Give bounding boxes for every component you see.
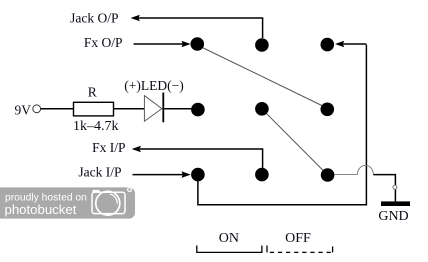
lug B2 <box>255 102 269 116</box>
9V terminal open circle <box>33 105 41 113</box>
svg-text:ON: ON <box>219 231 239 246</box>
ON bracket solid <box>197 246 262 253</box>
svg-text:Fx I/P: Fx I/P <box>92 140 125 155</box>
svg-text:OFF: OFF <box>285 231 311 246</box>
svg-text:R: R <box>88 84 97 99</box>
diagonal wire lug A1 to lug B3 <box>202 48 322 107</box>
wire Fx I/P to lug C2 with left arrow <box>132 146 263 168</box>
wire hop to GND drop <box>373 175 395 202</box>
wire Jack I/P into lug C1 with right arrow <box>133 171 191 178</box>
lug A2 <box>255 38 269 52</box>
bypass wire lug C1 down, bottom rail, up right side to A3 arrow <box>198 45 367 205</box>
svg-text:9V: 9V <box>15 103 32 118</box>
wire lug C3 to hop <box>333 174 357 176</box>
wire from vertical rail into lug A3 with left arrow <box>335 41 366 48</box>
OFF bracket dashed <box>266 246 268 253</box>
lug C3 <box>321 168 335 182</box>
svg-text:Jack O/P: Jack O/P <box>70 10 118 25</box>
LED D1 triangle anode <box>144 96 162 122</box>
svg-text:1k–4.7k: 1k–4.7k <box>73 119 119 134</box>
wire LED to lug B1 <box>164 108 193 110</box>
wire Jack O/P to lug A2 with left arrow <box>131 15 263 38</box>
wire hop over vertical rail <box>357 165 373 174</box>
photobucket watermark box <box>0 187 135 218</box>
ground bar <box>381 201 410 206</box>
lug C2 <box>255 168 269 182</box>
svg-text:Fx O/P: Fx O/P <box>84 35 123 50</box>
lug A1 <box>191 37 205 51</box>
wire resistor to LED <box>114 108 145 110</box>
resistor R body <box>74 102 114 116</box>
wire Fx O/P into lug A1 with right arrow <box>134 41 191 48</box>
watermark camera icon <box>92 190 125 215</box>
lug B3 <box>321 103 335 117</box>
lug B1 <box>191 103 205 117</box>
lug A3 <box>321 38 335 52</box>
lug C1 <box>191 168 205 182</box>
LED D1 cathode bar <box>162 93 164 123</box>
svg-text:Jack I/P: Jack I/P <box>78 165 121 180</box>
svg-text:GND: GND <box>378 209 408 224</box>
diagonal wire lug B2 to lug C3 <box>267 114 324 171</box>
svg-text:(+)LED(−): (+)LED(−) <box>124 78 183 93</box>
watermark registered mark <box>128 187 132 191</box>
connector open circle on GND drop <box>393 185 397 189</box>
svg-text:photobucket: photobucket <box>5 202 77 217</box>
wire 9V to resistor <box>41 108 74 110</box>
